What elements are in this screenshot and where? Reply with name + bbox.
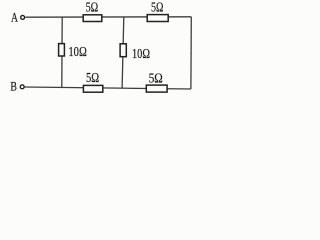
svg-text:B: B <box>10 80 17 94</box>
svg-text:A: A <box>11 10 18 25</box>
svg-text:5Ω: 5Ω <box>86 71 99 86</box>
svg-text:5Ω: 5Ω <box>151 0 163 15</box>
svg-text:10Ω: 10Ω <box>132 47 150 62</box>
svg-text:10Ω: 10Ω <box>68 45 86 60</box>
svg-text:5Ω: 5Ω <box>86 1 99 16</box>
svg-text:5Ω: 5Ω <box>149 71 163 86</box>
